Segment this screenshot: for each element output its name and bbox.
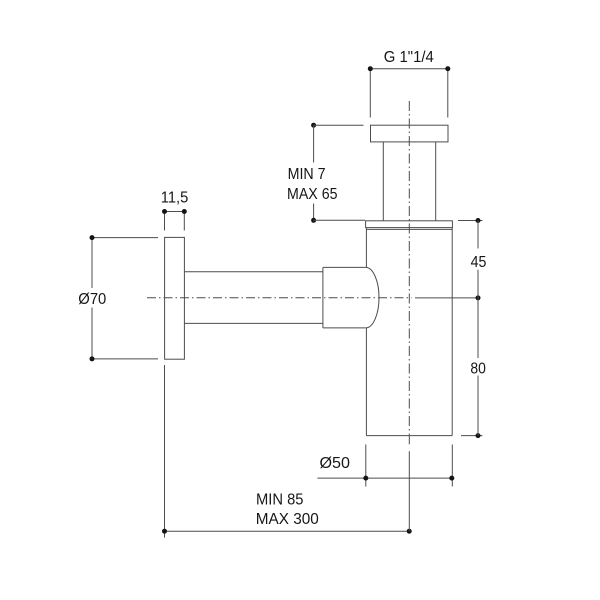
inlet pipe [184, 272, 323, 324]
centerline extension to MIN85/MAX300 [408, 436, 410, 531]
dimension label G 1"1/4 [384, 49, 434, 66]
svg-text:MIN 85: MIN 85 [256, 491, 304, 508]
horizontal centerline [147, 297, 412, 299]
svg-text:Ø70: Ø70 [78, 291, 106, 308]
dimension Ø50 [317, 445, 454, 487]
svg-text:G 1"1/4: G 1"1/4 [384, 49, 434, 66]
dimension label 80 [470, 360, 486, 377]
wall flange [165, 237, 185, 359]
inlet nut bulge [366, 267, 379, 328]
dimension MIN 7 / MAX 65 [311, 123, 365, 223]
dimension 45 / 80 [415, 218, 483, 438]
trap body [366, 228, 452, 436]
svg-text:MIN 7: MIN 7 [288, 166, 326, 183]
top flange nut [371, 125, 449, 142]
tailpiece pipe [383, 142, 435, 221]
dimension label MAX 300 [256, 511, 319, 528]
svg-text:MAX 65: MAX 65 [287, 186, 338, 203]
dimension label 45 [471, 254, 487, 271]
svg-text:Ø50: Ø50 [320, 455, 351, 472]
svg-text:80: 80 [470, 360, 486, 377]
dimension label MIN 7 [288, 166, 326, 183]
dimension Ø70 [90, 235, 159, 361]
dimension label 11,5 [161, 190, 189, 207]
dimension label Ø50 [320, 455, 351, 472]
dimension label MAX 65 [287, 186, 338, 203]
dimension label MIN 85 [256, 491, 304, 508]
svg-text:MAX 300: MAX 300 [256, 511, 319, 528]
svg-text:11,5: 11,5 [161, 190, 189, 207]
inlet nut [323, 267, 366, 328]
svg-text:45: 45 [471, 254, 487, 271]
dimension line G 1"1/4 [368, 66, 451, 117]
dimension 11,5 [162, 209, 187, 231]
dimension MIN 85 / MAX 300 [162, 365, 412, 538]
body top lip [366, 221, 453, 230]
vertical centerline [408, 101, 410, 436]
dimension label Ø70 [78, 291, 106, 308]
